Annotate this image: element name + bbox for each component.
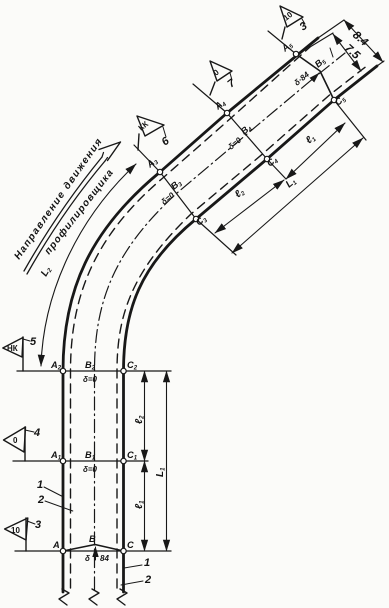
svg-text:L2: L2 [39, 264, 54, 279]
svg-text:ℓ1: ℓ1 [134, 500, 146, 509]
dimension line l1 diagonal [286, 123, 345, 179]
flag 10 station 3 left [5, 518, 28, 540]
svg-text:δ=0: δ=0 [227, 135, 244, 151]
svg-text:С1: С1 [127, 450, 138, 462]
station numbers [30, 20, 310, 586]
svg-text:А: А [52, 540, 60, 550]
leader line 1 left [44, 487, 64, 497]
dimension line 8.4 [344, 20, 383, 62]
svg-text:2: 2 [144, 574, 151, 586]
svg-text:НК: НК [7, 344, 18, 353]
svg-text:ℓ2: ℓ2 [233, 186, 247, 201]
leader line 2 right [121, 581, 143, 585]
svg-text:В4: В4 [239, 122, 255, 138]
node row A1-B1-C1 cross-section line [13, 460, 148, 462]
svg-text:0: 0 [212, 67, 221, 77]
svg-text:δ·84: δ·84 [293, 70, 312, 88]
svg-text:0: 0 [13, 436, 18, 445]
extension line from left dashed [310, 33, 333, 47]
extension line from A5 [318, 20, 344, 38]
svg-text:δ: δ [85, 554, 90, 563]
wire right lane dashed line 2 [117, 65, 368, 588]
point circles [60, 51, 336, 553]
svg-text:L1: L1 [284, 175, 299, 190]
direction arrow (hollow) [24, 157, 102, 271]
svg-text:3: 3 [35, 519, 41, 531]
cross-section line station 3 (KK) [134, 145, 236, 255]
svg-text:3: 3 [297, 20, 309, 33]
svg-text:А1: А1 [50, 450, 62, 462]
svg-text:δ=0: δ=0 [83, 375, 98, 384]
direction text [12, 136, 116, 262]
flag 0 station 4 diagonal [210, 61, 232, 81]
cross-section line station 5 with crown tent [268, 31, 296, 54]
svg-text:δ=0: δ=0 [160, 190, 177, 206]
svg-text:δ=0: δ=0 [83, 465, 98, 474]
flag texts [7, 10, 295, 535]
svg-text:5: 5 [30, 336, 37, 348]
L2 dimension arc along curve [41, 164, 136, 366]
break marks at bottom of road [59, 589, 69, 605]
flag KK station 3 diagonal [137, 116, 164, 136]
svg-text:С: С [127, 540, 134, 550]
wire road right edge (solid, line 1) [124, 66, 378, 592]
dimension line L1 diagonal [232, 138, 363, 253]
node row A2-B2-C2 cross-section line [17, 370, 171, 372]
svg-text:84: 84 [100, 554, 109, 563]
wire centerline dash-dot [95, 53, 346, 590]
delta arrow at B [95, 547, 97, 560]
svg-text:1: 1 [144, 557, 150, 569]
dimension line l2/l1 vertical [144, 371, 146, 461]
cross-section line station 4 [193, 84, 286, 179]
flag 10 station 5 diagonal [280, 6, 303, 27]
dimension line 7.5 [333, 34, 361, 71]
svg-text:ℓ1: ℓ1 [304, 132, 318, 147]
flag NK station 5 left [3, 338, 23, 358]
flag 0 station 4 left [4, 427, 26, 452]
svg-text:2: 2 [37, 494, 44, 506]
wire road left edge (solid, line 1) [63, 38, 318, 592]
leader line 2 left [45, 501, 73, 511]
leader line 1 right [124, 565, 142, 568]
svg-text:А2: А2 [50, 360, 62, 372]
svg-text:ℓ2: ℓ2 [134, 415, 146, 424]
tick on B5 extension [330, 48, 333, 57]
dimension line L1 vertical [166, 371, 168, 551]
svg-text:1: 1 [37, 479, 43, 491]
wire left lane dashed line 2 [71, 47, 311, 588]
extension line from C5 [377, 61, 384, 66]
svg-text:В3: В3 [169, 177, 185, 193]
svg-text:L1: L1 [155, 467, 167, 477]
node row A-B-C cross-section with crown tent [15, 550, 171, 552]
delta arrow at B5 [312, 73, 319, 80]
dimension line l2 diagonal [215, 180, 284, 233]
svg-text:С2: С2 [127, 360, 138, 372]
svg-text:10: 10 [11, 526, 20, 535]
svg-text:В: В [89, 534, 96, 544]
svg-text:4: 4 [33, 427, 40, 439]
